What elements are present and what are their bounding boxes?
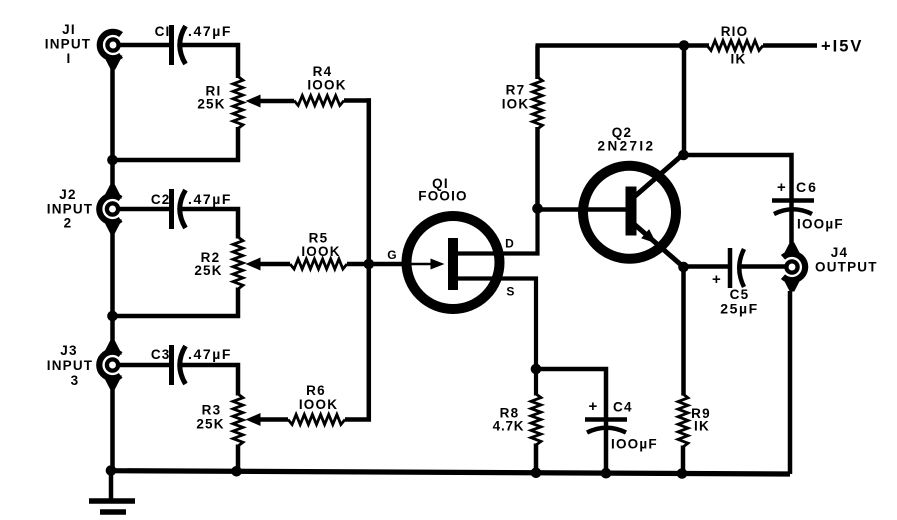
svg-text:D: D	[505, 237, 515, 251]
svg-text:.47µF: .47µF	[188, 191, 232, 207]
svg-text:CI: CI	[155, 24, 171, 39]
svg-text:IOOµF: IOOµF	[611, 437, 658, 452]
wire R7 bottom lead	[535, 127, 540, 210]
wire gate bus vertical	[345, 98, 369, 419]
connector J1 input jack	[100, 32, 123, 70]
capacitor C2 curved plate	[180, 190, 186, 228]
label C1	[155, 24, 171, 39]
wire C6 top lead	[789, 198, 794, 243]
capacitor C5 straight plate	[728, 248, 733, 288]
svg-text:RIO: RIO	[721, 24, 749, 39]
resistor R5 100K	[290, 259, 347, 269]
svg-text:R7: R7	[506, 83, 526, 98]
node junction source-C4 tap	[531, 364, 542, 375]
svg-text:IK: IK	[694, 419, 710, 434]
wire collector node to C6	[682, 155, 792, 200]
resistor R6 100K	[288, 415, 345, 425]
svg-text:I: I	[67, 51, 72, 66]
wire R2 bottom return to bus	[114, 288, 238, 317]
label S source pin	[506, 285, 515, 299]
connector J4 output jack	[783, 243, 806, 292]
label R7	[502, 83, 530, 112]
ground bar 1	[89, 498, 135, 504]
wire source tap to C4	[536, 369, 606, 473]
node ground junction	[106, 465, 117, 476]
label C6	[796, 179, 818, 195]
label R9	[691, 406, 711, 434]
wire C5 to J4	[741, 264, 786, 269]
label G gate pin	[387, 248, 398, 262]
wire J4 to ground bus	[788, 291, 793, 474]
capacitor C3 straight plate	[169, 345, 174, 385]
label R2	[194, 250, 222, 278]
wire Q1 drain to node	[458, 206, 538, 254]
wiper arrow into R2	[246, 258, 261, 271]
wire R9 bottom lead	[681, 446, 686, 474]
wire C3 left lead	[119, 363, 170, 368]
label C2	[151, 192, 171, 207]
node junction R9 ground	[677, 468, 688, 479]
label D drain pin	[505, 237, 515, 251]
svg-text:R3: R3	[202, 403, 222, 418]
wire J3 shield to ground bus	[110, 378, 115, 471]
emitter arrowhead Q2	[641, 229, 656, 243]
wire R7 top lead	[535, 46, 540, 80]
resistor R3 25K	[233, 394, 243, 446]
wiper arrow into R1	[246, 95, 261, 108]
connector J3 input jack	[99, 341, 122, 390]
connector J2 input jack	[99, 185, 122, 234]
svg-text:IOK: IOK	[502, 97, 530, 112]
capacitor C5 curved plate	[739, 249, 744, 287]
svg-text:J2: J2	[59, 187, 76, 202]
node collector junction	[678, 150, 689, 161]
label C1 value .47uF	[188, 23, 232, 39]
label C4 plus	[589, 398, 599, 415]
capacitor C3 curved plate	[180, 346, 186, 384]
label R1	[197, 84, 225, 112]
svg-text:.47µF: .47µF	[188, 23, 232, 39]
svg-text:25µF: 25µF	[720, 301, 759, 317]
capacitor C4 straight plate	[585, 417, 627, 422]
label C4 value	[611, 437, 658, 452]
resistor R8 4.7K	[531, 394, 541, 445]
svg-text:C6: C6	[796, 179, 818, 195]
wire J2 shield to J3	[110, 222, 115, 352]
label C2 value .47uF	[188, 191, 232, 207]
label R5	[301, 231, 340, 260]
label C6 plus	[777, 179, 787, 196]
label C5 value	[720, 301, 759, 317]
node junction R3 on ground bus	[231, 466, 242, 477]
wiper arrow into R3	[246, 413, 261, 426]
svg-text:3: 3	[71, 373, 80, 388]
svg-text:R6: R6	[306, 383, 326, 398]
capacitor C1 curved plate	[180, 26, 186, 64]
svg-text:IOOK: IOOK	[299, 397, 338, 412]
resistor R7 10K	[533, 77, 543, 129]
gate arrow inside Q1	[404, 263, 432, 265]
svg-text:+: +	[589, 398, 599, 415]
svg-text:IOOK: IOOK	[301, 244, 340, 259]
resistor R1 25K	[233, 77, 243, 129]
wire emitter down to R9	[681, 267, 686, 396]
resistor R2 25K	[233, 237, 243, 289]
label J3	[47, 343, 94, 388]
svg-text:J4: J4	[831, 245, 848, 260]
wire J1 shield to J2	[110, 58, 115, 196]
svg-text:.47µF: .47µF	[188, 346, 232, 362]
svg-text:C4: C4	[613, 400, 633, 415]
label +15V supply	[821, 38, 863, 56]
node gate junction	[364, 259, 375, 270]
label C4	[613, 400, 633, 415]
label OUTPUT	[815, 260, 878, 275]
wire R3 bottom to ground bus	[236, 445, 241, 472]
svg-text:FOOIO: FOOIO	[418, 189, 468, 204]
wire C1 left lead	[119, 43, 170, 48]
label R10	[721, 24, 749, 67]
svg-text:4.7K: 4.7K	[493, 419, 525, 434]
node junction R8 ground	[531, 468, 542, 479]
wire C2 left lead	[119, 207, 170, 212]
svg-text:INPUT: INPUT	[47, 202, 94, 217]
wire R5 to gate bus	[347, 262, 369, 267]
capacitor C2 straight plate	[169, 189, 174, 229]
node junction R2-return on bus	[107, 311, 118, 322]
label C6 value	[797, 217, 844, 232]
label R8	[493, 406, 525, 434]
label R4	[307, 64, 346, 93]
svg-text:INPUT: INPUT	[47, 358, 94, 373]
label J2	[47, 187, 94, 231]
transistor Q2 base bar	[626, 187, 637, 236]
resistor R9 1K	[678, 394, 688, 447]
wire C1 to R1 top	[182, 45, 238, 78]
label Q1	[418, 176, 468, 204]
wire gate lead to Q1	[369, 262, 406, 267]
transistor Q2 body circle	[583, 166, 676, 259]
label Q2	[598, 125, 656, 154]
svg-text:JI: JI	[62, 22, 76, 37]
wire R1 bottom return to bus	[114, 127, 238, 160]
svg-text:IOOµF: IOOµF	[797, 217, 844, 232]
node junction R1-return on bus	[107, 155, 118, 166]
label R3	[196, 403, 224, 432]
wire +15V rail	[536, 43, 710, 48]
wire rail down to collector node	[682, 46, 687, 158]
label C3	[151, 347, 171, 362]
wire emitter to C5	[684, 264, 730, 269]
svg-text:C3: C3	[151, 347, 171, 362]
wire R8 bottom lead	[534, 444, 539, 474]
svg-text:25K: 25K	[196, 417, 224, 432]
node base node junction	[532, 203, 543, 214]
label J4	[831, 245, 848, 260]
svg-text:IK: IK	[731, 52, 747, 67]
svg-text:2N27I2: 2N27I2	[598, 139, 656, 154]
capacitor C6 curved plate	[774, 209, 812, 214]
node emitter junction	[678, 262, 689, 273]
transistor Q1 channel bar	[448, 238, 458, 290]
wire C3 to R3 top	[182, 365, 238, 396]
node junction C4 ground	[601, 468, 612, 479]
svg-text:G: G	[387, 248, 398, 262]
wire Q1 source down to R8	[458, 279, 536, 396]
resistor R10 1K	[707, 41, 763, 51]
wire C2 to R2 top	[182, 209, 238, 239]
svg-text:S: S	[506, 285, 515, 299]
capacitor C1 straight plate	[169, 25, 174, 65]
wire ground bus	[109, 471, 790, 474]
label C5	[730, 287, 750, 302]
svg-text:25K: 25K	[197, 97, 225, 112]
node junction rail-collector	[679, 40, 690, 51]
capacitor C4 curved plate	[587, 428, 626, 433]
wire ground stub	[109, 471, 114, 501]
svg-text:25K: 25K	[194, 263, 222, 278]
wire Q2 emitter diagonal	[634, 224, 684, 267]
svg-text:INPUT: INPUT	[45, 37, 92, 52]
svg-text:C2: C2	[151, 192, 171, 207]
label R6	[299, 383, 338, 412]
svg-text:OUTPUT: OUTPUT	[815, 260, 878, 275]
svg-text:2: 2	[64, 216, 73, 231]
resistor R4 100K	[294, 96, 344, 106]
svg-text:J3: J3	[60, 343, 77, 358]
svg-text:+: +	[712, 271, 722, 288]
wire Q2 collector diagonal	[634, 154, 684, 197]
label J1	[45, 22, 92, 66]
svg-text:+I5V: +I5V	[821, 38, 863, 56]
svg-text:+: +	[777, 179, 787, 196]
wire R10 to +15V	[763, 43, 817, 48]
label C3 value .47uF	[188, 346, 232, 362]
label C5 plus	[712, 271, 722, 288]
wire Q2 base lead	[538, 207, 628, 212]
op-amp Q1 FET body circle	[407, 216, 500, 309]
svg-text:IOOK: IOOK	[307, 78, 346, 93]
capacitor C6 straight plate	[772, 198, 814, 203]
wire R4 to gate bus	[344, 98, 371, 103]
ground bar 2	[100, 509, 126, 515]
